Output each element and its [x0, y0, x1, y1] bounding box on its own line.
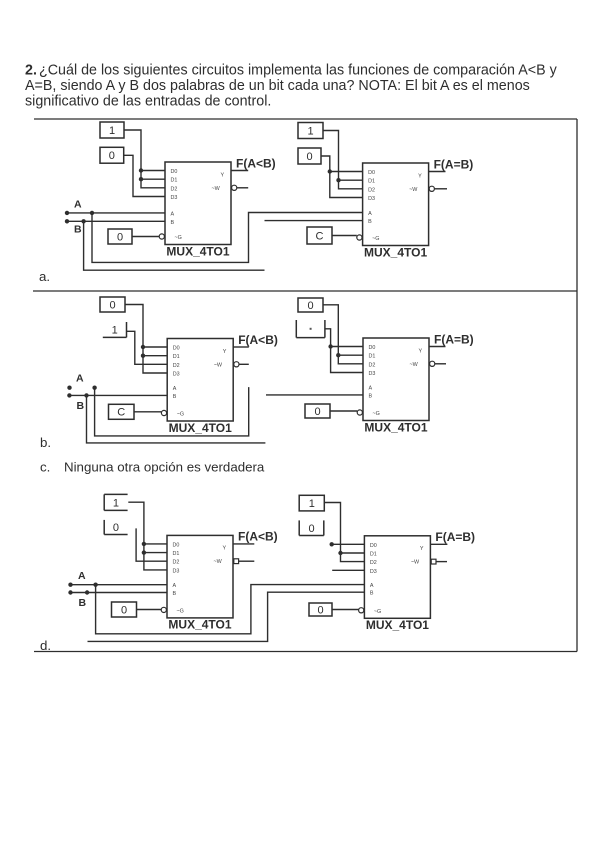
svg-text:1: 1 — [113, 497, 119, 509]
svg-text:2.: 2. — [25, 63, 37, 79]
svg-text:1: 1 — [309, 498, 315, 510]
svg-text:B: B — [171, 220, 175, 226]
svg-text:~W: ~W — [410, 362, 419, 368]
svg-text:B: B — [77, 400, 85, 412]
svg-text:D3: D3 — [171, 195, 178, 201]
svg-text:~G: ~G — [372, 236, 379, 242]
svg-text:0: 0 — [307, 300, 313, 312]
svg-text:MUX_4TO1: MUX_4TO1 — [169, 421, 232, 435]
svg-text:B: B — [173, 591, 177, 597]
svg-text:D0: D0 — [368, 170, 375, 176]
svg-text:D2: D2 — [368, 187, 375, 193]
svg-text:D0: D0 — [370, 543, 377, 549]
svg-text:B: B — [173, 394, 177, 400]
svg-text:Y: Y — [221, 172, 225, 178]
svg-text:F(A=B): F(A=B) — [434, 332, 474, 346]
svg-text:D2: D2 — [173, 560, 180, 566]
svg-text:D2: D2 — [369, 362, 376, 368]
svg-text:~G: ~G — [175, 235, 182, 241]
svg-text:D2: D2 — [173, 363, 180, 369]
svg-text:~G: ~G — [177, 608, 184, 614]
svg-text:~W: ~W — [214, 362, 223, 368]
svg-text:A: A — [370, 583, 374, 589]
svg-text:~G: ~G — [373, 411, 380, 417]
svg-text:D3: D3 — [173, 372, 180, 378]
svg-text:Y: Y — [223, 349, 227, 355]
svg-text:F(A<B): F(A<B) — [236, 156, 276, 170]
svg-text:~W: ~W — [411, 560, 420, 566]
svg-text:0: 0 — [306, 151, 312, 163]
svg-text:C: C — [316, 230, 324, 242]
svg-text:C: C — [117, 407, 125, 419]
svg-text:D2: D2 — [370, 560, 377, 566]
svg-text:significativo de las entradas: significativo de las entradas de control… — [25, 94, 271, 110]
svg-text:A: A — [76, 373, 84, 385]
svg-text:Ninguna otra opción es verdade: Ninguna otra opción es verdadera — [64, 460, 265, 475]
svg-text:D1: D1 — [368, 179, 375, 185]
svg-text:F(A<B): F(A<B) — [238, 530, 278, 544]
svg-text:Y: Y — [223, 546, 227, 552]
svg-text:D1: D1 — [171, 178, 178, 184]
svg-text:A=B, siendo A y B dos palabras: A=B, siendo A y B dos palabras de un bit… — [25, 78, 530, 94]
svg-text:F(A=B): F(A=B) — [435, 530, 475, 544]
svg-text:MUX_4TO1: MUX_4TO1 — [168, 618, 231, 632]
svg-text:F(A=B): F(A=B) — [434, 157, 474, 171]
svg-text:0: 0 — [109, 150, 115, 162]
svg-text:0: 0 — [109, 299, 115, 311]
svg-text:A: A — [369, 386, 373, 392]
svg-text:B: B — [79, 597, 87, 609]
svg-text:D0: D0 — [171, 169, 178, 175]
svg-text:d.: d. — [40, 638, 51, 653]
svg-text:D0: D0 — [369, 345, 376, 351]
svg-text:~W: ~W — [212, 186, 221, 192]
svg-text:0: 0 — [314, 406, 320, 418]
svg-text:D1: D1 — [369, 354, 376, 360]
svg-text:1: 1 — [112, 325, 118, 337]
svg-text:D3: D3 — [368, 196, 375, 202]
svg-text:B: B — [370, 591, 374, 597]
svg-text:A: A — [78, 570, 86, 582]
svg-text:1: 1 — [109, 125, 115, 137]
svg-text:Y: Y — [420, 546, 424, 552]
svg-text:D3: D3 — [370, 569, 377, 575]
svg-text:D3: D3 — [173, 568, 180, 574]
svg-text:0: 0 — [308, 523, 314, 535]
svg-text:0: 0 — [113, 522, 119, 534]
svg-text:B: B — [74, 224, 82, 236]
svg-text:~W: ~W — [409, 187, 418, 193]
svg-text:A: A — [74, 199, 82, 211]
svg-text:MUX_4TO1: MUX_4TO1 — [166, 244, 229, 258]
svg-text:Y: Y — [418, 173, 422, 179]
svg-text:MUX_4TO1: MUX_4TO1 — [366, 618, 429, 632]
svg-text:a.: a. — [39, 269, 50, 284]
svg-text:D2: D2 — [171, 186, 178, 192]
svg-text:0: 0 — [121, 604, 127, 616]
svg-text:b.: b. — [40, 435, 51, 450]
svg-text:Y: Y — [419, 348, 423, 354]
svg-text:A: A — [171, 211, 175, 217]
svg-text:~G: ~G — [374, 609, 381, 615]
svg-text:B: B — [368, 219, 372, 225]
svg-text:MUX_4TO1: MUX_4TO1 — [364, 420, 427, 434]
svg-text:B: B — [369, 393, 373, 399]
svg-text:A: A — [368, 211, 372, 217]
svg-text:D0: D0 — [173, 346, 180, 352]
svg-text:MUX_4TO1: MUX_4TO1 — [364, 245, 427, 259]
svg-text:c.: c. — [40, 460, 50, 475]
svg-text:D1: D1 — [173, 354, 180, 360]
svg-text:1: 1 — [307, 125, 313, 137]
svg-text:D1: D1 — [173, 551, 180, 557]
svg-text:0: 0 — [317, 604, 323, 616]
svg-text:¿Cuál de los siguientes circui: ¿Cuál de los siguientes circuitos implem… — [39, 63, 558, 79]
svg-text:D1: D1 — [370, 552, 377, 558]
svg-text:D3: D3 — [369, 371, 376, 377]
svg-text:~W: ~W — [214, 559, 223, 565]
svg-text:A: A — [173, 583, 177, 589]
svg-text:0: 0 — [117, 231, 123, 243]
svg-text:D0: D0 — [173, 542, 180, 548]
svg-text:~G: ~G — [177, 412, 184, 418]
svg-text:F(A<B): F(A<B) — [238, 333, 278, 347]
svg-text:A: A — [173, 386, 177, 392]
